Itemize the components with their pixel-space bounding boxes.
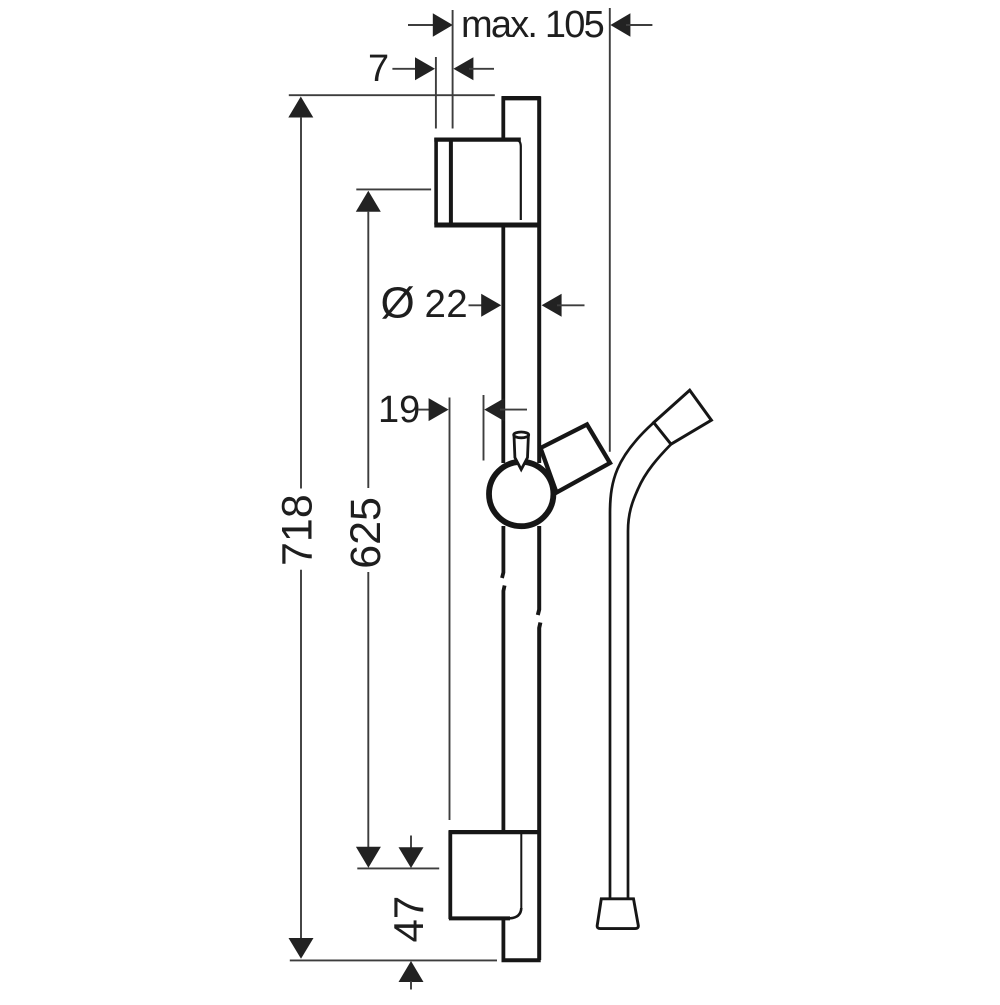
handshower holder arm (541, 425, 611, 493)
svg-text:7: 7 (368, 48, 389, 90)
dimension max.105 (408, 4, 652, 452)
svg-text:625: 625 (342, 497, 390, 569)
release lever (514, 435, 528, 469)
bar bottom cap (502, 958, 541, 962)
dimension diameter 22 (381, 279, 585, 328)
bar left edge (501, 97, 505, 139)
dimension 625 (342, 189, 439, 868)
svg-text:22: 22 (425, 283, 469, 326)
svg-text:47: 47 (385, 896, 432, 943)
slider knob circle (489, 462, 553, 526)
dimension 47 (385, 836, 432, 990)
svg-text:19: 19 (378, 389, 420, 431)
dimension 7 (368, 48, 494, 129)
bar right edge (537, 97, 541, 464)
svg-text:max. 105: max. 105 (461, 4, 604, 46)
dimension 718 (274, 95, 498, 960)
bottom wall bracket (449, 830, 539, 919)
top wall bracket (434, 138, 540, 225)
slide bar (502, 97, 541, 961)
svg-text:718: 718 (274, 494, 322, 566)
dimension 19 (378, 389, 527, 820)
hose conical fitting (654, 390, 712, 444)
svg-text:Ø: Ø (381, 279, 415, 328)
shower hose (610, 423, 671, 899)
hose end cone (597, 899, 638, 929)
bar top cap (502, 96, 541, 100)
